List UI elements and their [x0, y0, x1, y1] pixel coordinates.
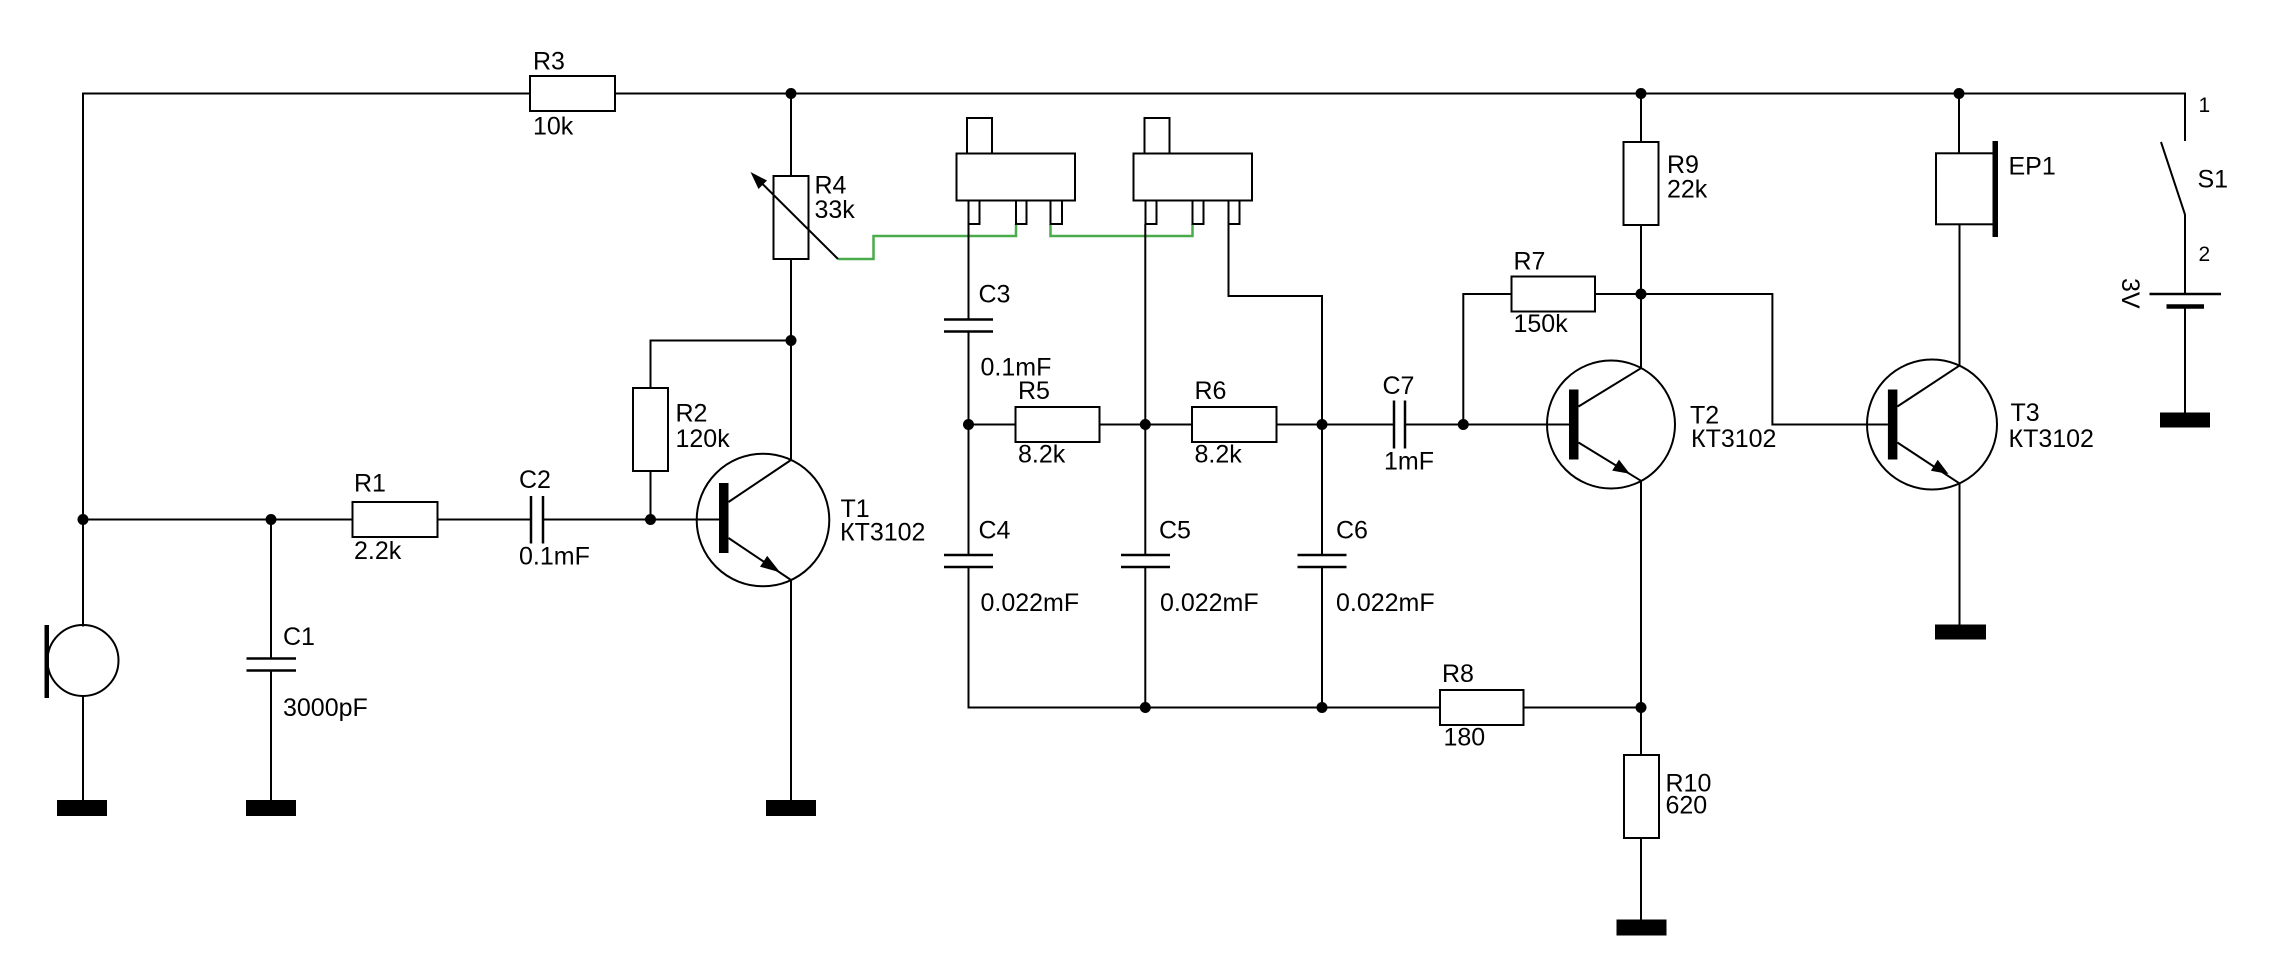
earphone EP1 diaphragm bar [1993, 141, 1999, 237]
wire C5 to bottom rail [1144, 567, 1146, 708]
node R5 left [963, 419, 974, 430]
wire R4 wiper green net to SA1 pin 2 [838, 224, 1016, 259]
wire EP1 top [1958, 94, 1960, 154]
transistor T1 base bar [719, 483, 729, 553]
svg-text:S1: S1 [2198, 166, 2229, 194]
wire C1 branch upper [270, 520, 272, 659]
svg-text:C7: C7 [1383, 372, 1415, 400]
svg-text:620: 620 [1666, 792, 1708, 820]
microphone M1 circle [48, 625, 119, 696]
svg-text:R3: R3 [533, 48, 565, 76]
svg-text:3000pF: 3000pF [283, 694, 368, 722]
wire T2 collector [1640, 294, 1642, 368]
slide switch SA1 pin 1 [969, 201, 980, 225]
node R2 / collector junction [786, 335, 797, 346]
svg-text:3V: 3V [2116, 278, 2144, 309]
potentiometer R4 [774, 176, 809, 259]
node top rail / T1 collector [786, 88, 797, 99]
capacitor C4 [944, 555, 993, 567]
node C5 bottom [1140, 702, 1151, 713]
wire C2 to T1 base [543, 519, 719, 521]
node R8 right / R10 top [1636, 702, 1647, 713]
wire R4 top [790, 94, 792, 177]
svg-text:1: 1 [2199, 94, 2211, 117]
wire top rail right segment [615, 94, 2185, 142]
svg-text:T3: T3 [2011, 399, 2040, 427]
svg-text:8.2k: 8.2k [1195, 441, 1243, 469]
svg-text:1mF: 1mF [1384, 448, 1434, 476]
wire C3 to R5 node [968, 332, 970, 556]
svg-text:R6: R6 [1195, 377, 1227, 405]
resistor R8 [1440, 690, 1524, 725]
wire R2 bottom [650, 471, 652, 520]
capacitor C6 [1298, 555, 1347, 567]
svg-text:C1: C1 [283, 623, 315, 651]
node R6 right / C6 [1317, 419, 1328, 430]
transistor T2 emitter arrow [1612, 460, 1630, 474]
wire C1 to ground [270, 671, 272, 801]
capacitor C5 [1121, 555, 1170, 567]
svg-text:0.022mF: 0.022mF [981, 589, 1080, 617]
svg-text:0.1mF: 0.1mF [519, 543, 590, 571]
transistor T2 emitter lead [1579, 443, 1642, 481]
transistor T1 emitter lead [729, 538, 792, 580]
svg-text:C4: C4 [979, 517, 1011, 545]
wire SA1 pin1 to C3 [968, 224, 970, 320]
wire T3 collector to EP1 [1959, 224, 1961, 365]
node C6 bottom [1317, 702, 1328, 713]
ground microphone [57, 800, 107, 816]
transistor T1 collector lead [729, 460, 792, 502]
capacitor C2 [531, 496, 543, 544]
slide switch SA2 body [1134, 154, 1253, 201]
wire T2 emitter down [1640, 481, 1642, 708]
wire C4 to bottom rail [969, 567, 1441, 708]
svg-text:R2: R2 [676, 400, 708, 428]
node top rail / R9 [1636, 88, 1647, 99]
wire T2 collector to T3 base [1641, 294, 1888, 425]
transistor T2 base bar [1569, 390, 1579, 460]
wire top rail left segment [83, 94, 530, 520]
svg-text:КТ3102: КТ3102 [840, 519, 925, 547]
wire R9 top [1640, 94, 1642, 143]
wire R6 to C7 node [1277, 424, 1395, 426]
transistor T3 emitter arrow [1931, 460, 1949, 474]
battery GB1 positive plate [2150, 293, 2222, 296]
ground battery [2160, 413, 2210, 428]
slide switch SA1 handle [967, 118, 992, 154]
svg-text:C5: C5 [1159, 517, 1191, 545]
slide switch SA1 pin 2 [1016, 201, 1027, 225]
switch S1 blade [2161, 142, 2185, 294]
slide switch SA1 body [957, 154, 1076, 201]
node top rail / EP1 [1954, 88, 1965, 99]
resistor R5 [1016, 407, 1100, 442]
svg-text:2.2k: 2.2k [354, 537, 402, 565]
transistor T1 [697, 454, 830, 587]
node left rail / R1 junction [78, 514, 89, 525]
svg-text:2: 2 [2199, 243, 2211, 266]
potentiometer R4 wiper arrow [753, 175, 838, 260]
svg-text:8.2k: 8.2k [1018, 441, 1066, 469]
wire R7 left branch [1463, 294, 1511, 425]
svg-text:150k: 150k [1514, 310, 1569, 338]
node T2 collector junction [1636, 289, 1647, 300]
slide switch SA1 pin 3 [1051, 201, 1063, 225]
svg-text:КТ3102: КТ3102 [1691, 425, 1776, 453]
svg-text:0.022mF: 0.022mF [1336, 589, 1435, 617]
ground C1 [246, 800, 296, 816]
wire C6 to bottom rail [1321, 567, 1323, 708]
wire battery to ground [2184, 307, 2186, 413]
slide switch SA2 pin 1 [1146, 201, 1157, 225]
svg-text:R1: R1 [354, 470, 386, 498]
resistor R9 [1624, 142, 1659, 225]
wire bottom rail R8 right segment [1524, 707, 1642, 709]
transistor T1 emitter arrow [760, 556, 780, 573]
transistor T3 collector lead [1897, 366, 1959, 407]
microphone M1 electrode bar [45, 625, 50, 698]
svg-text:10k: 10k [533, 113, 574, 141]
slide switch SA2 pin 2 [1193, 201, 1204, 225]
svg-text:0.022mF: 0.022mF [1160, 589, 1259, 617]
node R2 bottom junction [645, 514, 656, 525]
wire R10 top [1640, 708, 1642, 756]
resistor R2 [633, 388, 668, 471]
svg-text:R5: R5 [1018, 377, 1050, 405]
svg-text:120k: 120k [676, 425, 731, 453]
svg-text:C6: C6 [1336, 517, 1368, 545]
resistor R1 [353, 502, 438, 537]
wire R4 bottom to T1 collector [790, 259, 792, 460]
node C5 top [1140, 419, 1151, 430]
svg-text:C2: C2 [519, 466, 551, 494]
wire SA2 pin3 to C6 node [1229, 224, 1323, 555]
capacitor C7 [1394, 401, 1405, 449]
capacitor C1 [247, 659, 297, 671]
wire signal line mic to R1 [83, 519, 353, 521]
wire R10 to ground [1640, 838, 1642, 920]
svg-text:180: 180 [1444, 724, 1486, 752]
wire SA2 pin1 down [1144, 224, 1146, 555]
transistor T3 emitter lead [1897, 443, 1959, 484]
node R7 bottom junction [1458, 419, 1469, 430]
wire R7 right [1595, 293, 1641, 295]
wire T1 emitter to ground [790, 580, 792, 800]
transistor T2 [1547, 361, 1675, 489]
wire C7 to T2 base [1405, 424, 1569, 426]
resistor R7 [1512, 277, 1596, 312]
svg-text:EP1: EP1 [2009, 153, 2056, 181]
ground T1 [766, 800, 816, 816]
node C1 junction [266, 514, 277, 525]
wire SA1 pin 3 green net to SA2 pin 2 [1051, 224, 1193, 236]
wire R2 top to collector [651, 341, 792, 389]
transistor T2 collector lead [1579, 368, 1642, 406]
svg-text:22k: 22k [1667, 176, 1708, 204]
wire left rail to microphone [82, 520, 84, 627]
wire R5 to R6 [1100, 424, 1193, 426]
svg-text:R7: R7 [1514, 248, 1546, 276]
resistor R3 [530, 76, 615, 111]
wire T3 emitter to ground [1959, 483, 1961, 624]
svg-text:R8: R8 [1442, 660, 1474, 688]
resistor R6 [1192, 407, 1277, 442]
wire R1 to C2 [438, 519, 532, 521]
capacitor C3 [944, 320, 993, 332]
battery GB1 negative plate [2167, 304, 2205, 309]
wire R9 bottom [1640, 225, 1642, 294]
svg-text:33k: 33k [815, 196, 856, 224]
ground T3 [1935, 625, 1986, 640]
wire microphone to ground [82, 696, 84, 800]
svg-text:C3: C3 [979, 281, 1011, 309]
transistor T3 base bar [1888, 390, 1898, 460]
ground R10 [1617, 920, 1667, 936]
earphone EP1 body [1936, 153, 1994, 224]
wire R5 left [969, 424, 1016, 426]
transistor T3 [1867, 360, 1997, 490]
slide switch SA2 pin 3 [1229, 201, 1240, 225]
resistor R10 [1624, 755, 1659, 838]
slide switch SA2 handle [1145, 118, 1170, 154]
svg-text:КТ3102: КТ3102 [2009, 425, 2094, 453]
